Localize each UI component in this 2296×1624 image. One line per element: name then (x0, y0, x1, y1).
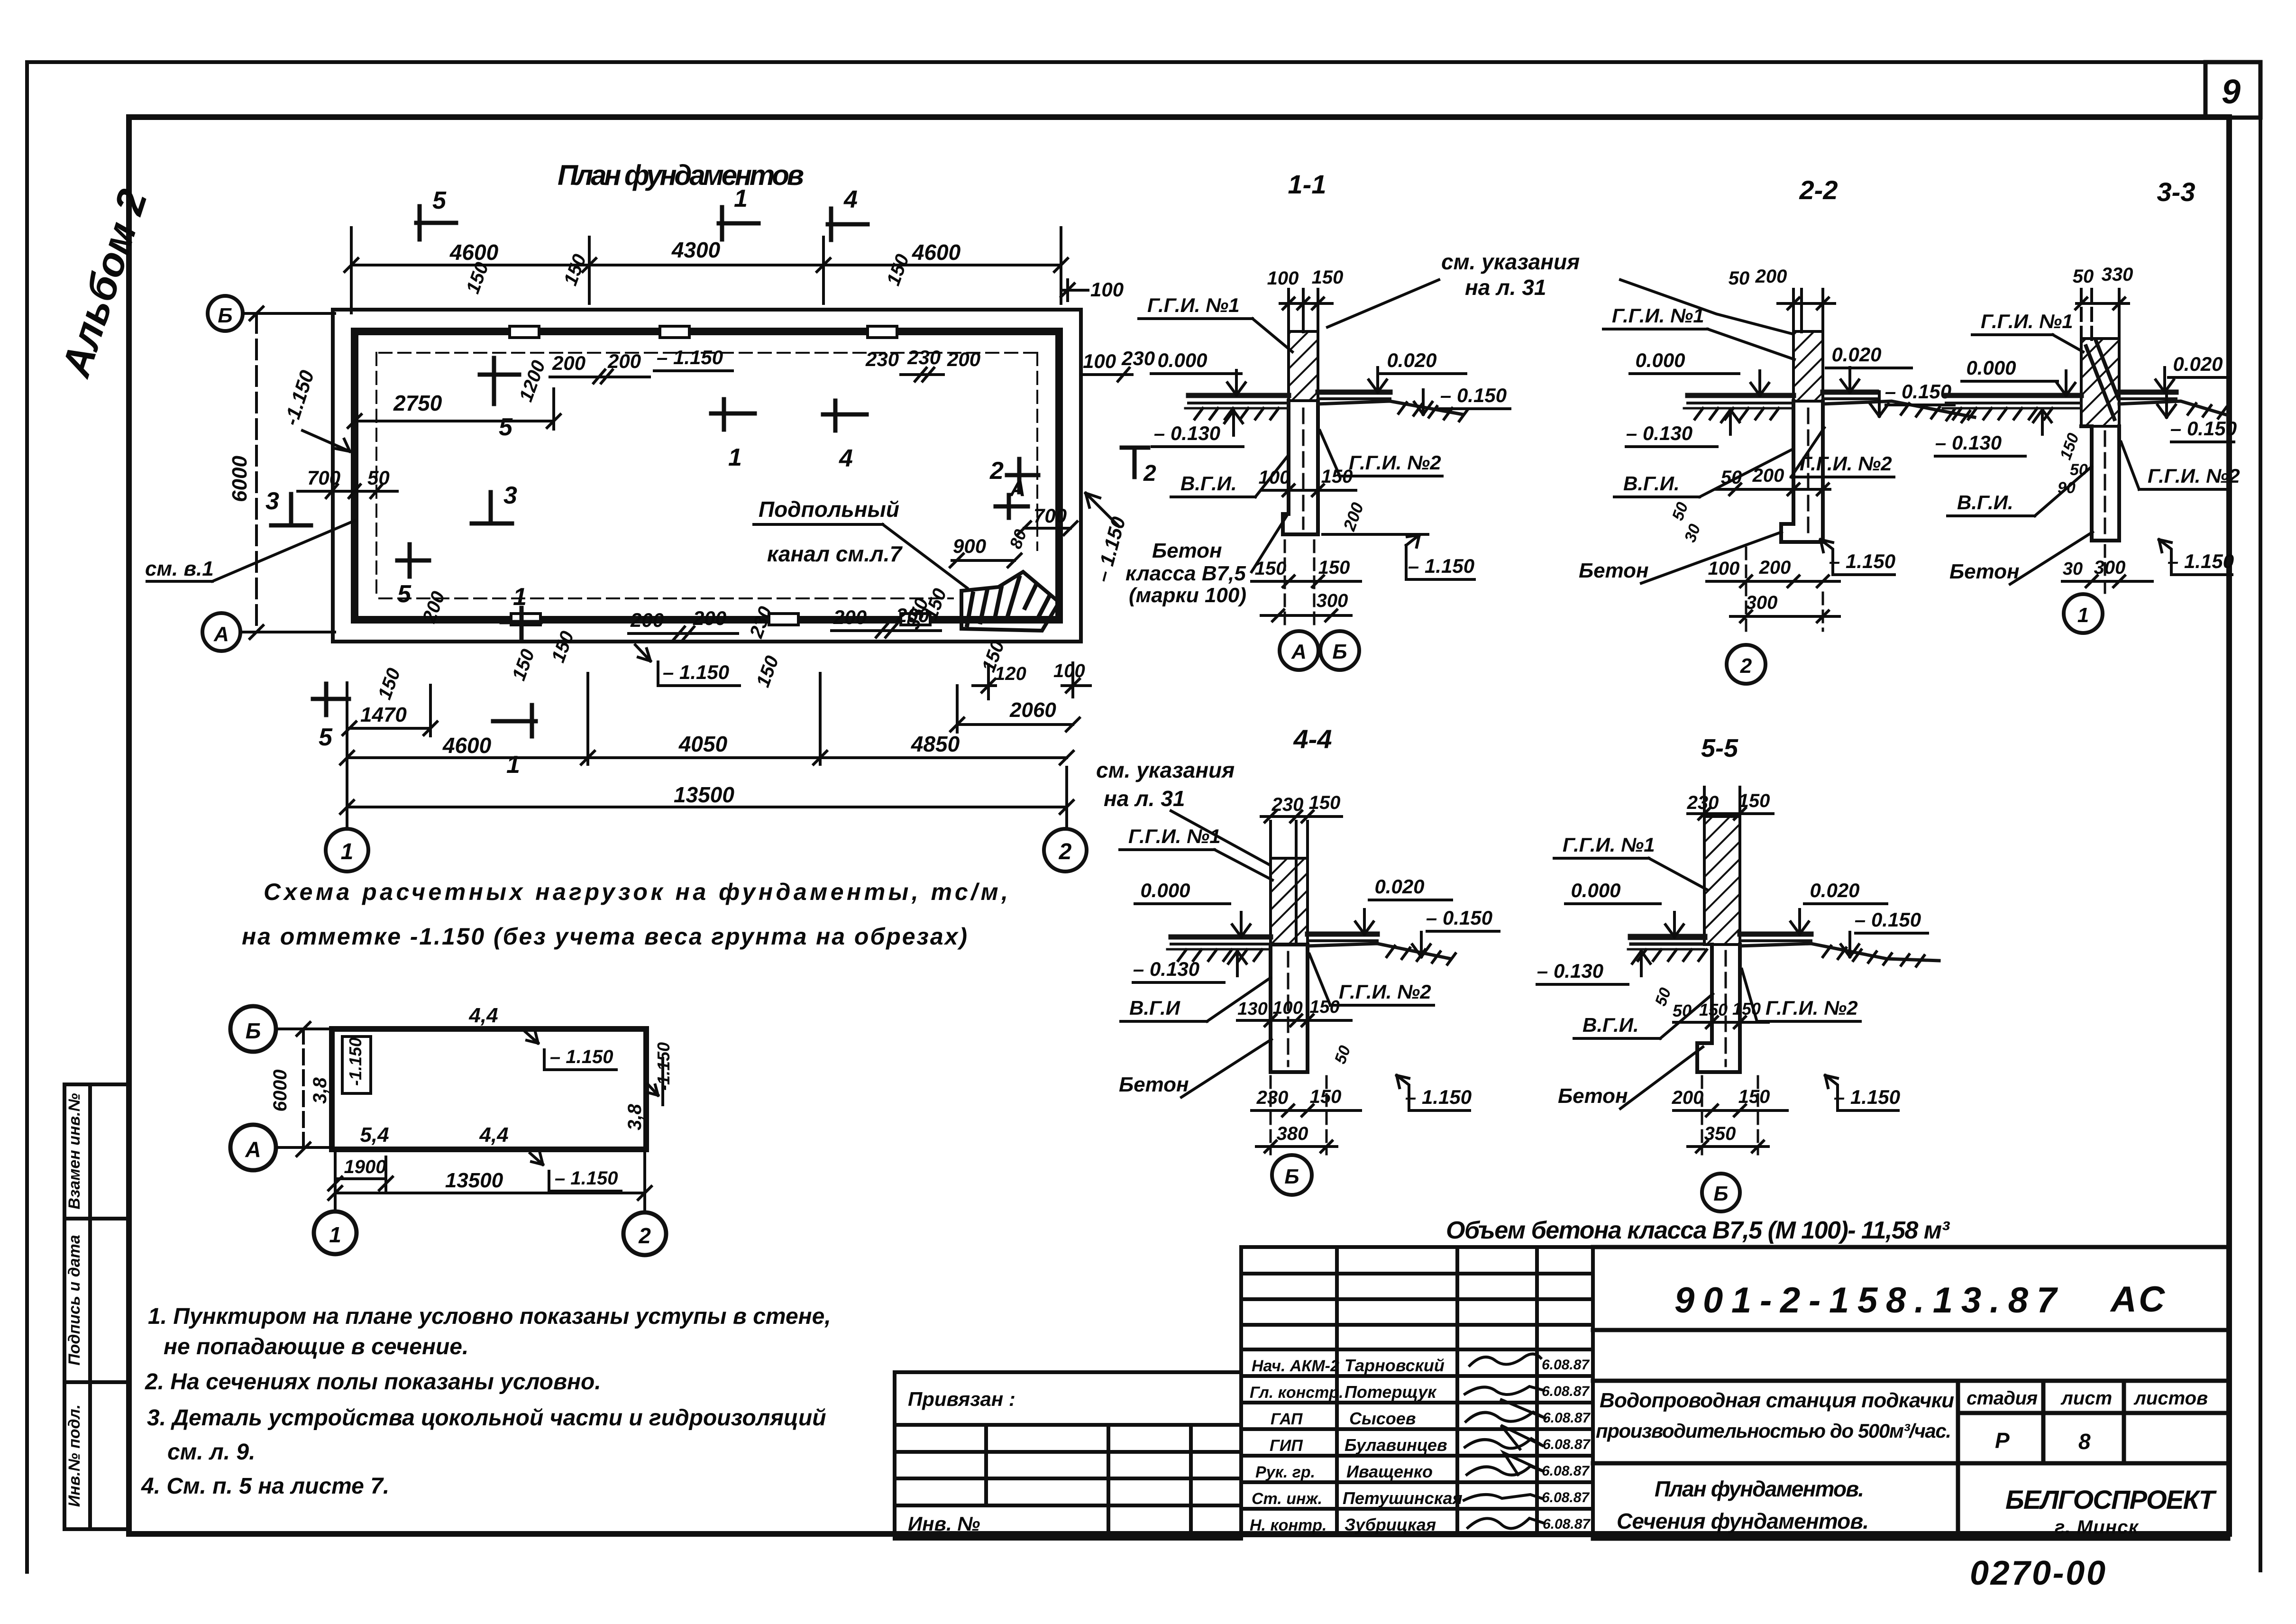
svg-text:1900: 1900 (344, 1156, 386, 1177)
privyazan box (895, 1372, 1241, 1539)
s11 wall hatched (1289, 331, 1318, 401)
svg-text:50: 50 (2070, 461, 2088, 479)
svg-text:– 0.130: – 0.130 (1537, 960, 1603, 982)
svg-text:Рук. гр.: Рук. гр. (1255, 1463, 1315, 1481)
svg-text:А: А (1009, 476, 1025, 501)
svg-text:150: 150 (1312, 267, 1344, 288)
svg-text:901-2-158.13.87: 901-2-158.13.87 (1674, 1280, 2058, 1321)
svg-text:150: 150 (1255, 558, 1287, 579)
svg-text:стадия: стадия (1967, 1388, 2038, 1409)
svg-text:Гл. констр.: Гл. констр. (1250, 1384, 1344, 1402)
s11 floor right and ground slope (1318, 392, 1463, 414)
signatures scribbles (1464, 1354, 1546, 1528)
svg-text:ГАП: ГАП (1271, 1410, 1303, 1428)
s33 wall below floor (2081, 426, 2119, 541)
svg-text:лист: лист (2060, 1388, 2112, 1409)
s55 floor left thick (1628, 937, 1704, 949)
svg-text:2: 2 (1143, 461, 1156, 486)
s11 floor left (1185, 395, 1289, 408)
svg-text:Г.Г.И. №2: Г.Г.И. №2 (1800, 452, 1892, 475)
svg-text:– 0.150: – 0.150 (1426, 907, 1492, 929)
svg-text:50: 50 (2073, 266, 2094, 287)
s33 axis circle 1 (2104, 545, 2106, 593)
svg-text:6.08.87: 6.08.87 (1543, 1516, 1591, 1532)
s11 mark 2 (1122, 448, 1148, 477)
svg-text:В.Г.И.: В.Г.И. (1180, 472, 1237, 495)
s55 wall below floor (1697, 945, 1740, 1072)
svg-text:В.Г.И.: В.Г.И. (1623, 472, 1680, 495)
s44 wall hatched (1271, 858, 1308, 945)
svg-text:Инв.№ подл.: Инв.№ подл. (65, 1404, 83, 1507)
svg-text:Подпольный: Подпольный (759, 497, 899, 522)
svg-text:Н. контр.: Н. контр. (1250, 1516, 1326, 1534)
wall inner dashed ledges (376, 353, 1037, 598)
s11 axis circles A B (1280, 631, 1318, 670)
svg-text:– 1.150: – 1.150 (1405, 1086, 1472, 1108)
section mark 1 top (719, 207, 759, 239)
svg-text:330: 330 (2102, 264, 2133, 285)
right title cells (1593, 1247, 2228, 1539)
svg-text:г. Минск: г. Минск (2055, 1517, 2139, 1538)
box Взамен инв. (64, 1084, 129, 1219)
svg-text:0.000: 0.000 (1571, 879, 1620, 901)
svg-text:Ст. инж.: Ст. инж. (1252, 1490, 1322, 1508)
schema dim 6000 rotated (297, 1022, 310, 1156)
svg-text:Булавинцев: Булавинцев (1345, 1435, 1447, 1455)
s33 floor left (1943, 395, 2081, 408)
schema axis bubble 2 (623, 1212, 666, 1255)
svg-text:1: 1 (734, 185, 748, 212)
svg-text:4: 4 (839, 445, 853, 472)
svg-text:не попадающие в сечение.: не попадающие в сечение. (164, 1334, 468, 1359)
svg-text:Б: Б (1713, 1182, 1728, 1205)
svg-text:6.08.87: 6.08.87 (1542, 1490, 1590, 1505)
svg-text:Г.Г.И. №1: Г.Г.И. №1 (1128, 825, 1221, 847)
section mark 4 top (828, 209, 868, 240)
svg-text:130: 130 (1237, 999, 1267, 1019)
svg-text:6.08.87: 6.08.87 (1542, 1357, 1590, 1373)
svg-text:– 1.150: – 1.150 (663, 661, 729, 683)
svg-text:производительностью до 500м³/ч: производительностью до 500м³/час. (1596, 1420, 1951, 1442)
schema axis bubble A (230, 1125, 276, 1170)
svg-text:4,4: 4,4 (479, 1123, 508, 1147)
svg-text:БЕЛГОСПРОЕКТ: БЕЛГОСПРОЕКТ (2005, 1485, 2217, 1514)
svg-text:Нач. АКМ-2: Нач. АКМ-2 (1252, 1357, 1339, 1375)
svg-text:Объем бетона класса В7,5 (М 10: Объем бетона класса В7,5 (М 100)- 11,58 … (1446, 1217, 1950, 1244)
box Инв № подл (64, 1382, 129, 1529)
svg-text:4,4: 4,4 (468, 1004, 498, 1027)
svg-text:5: 5 (499, 413, 513, 441)
svg-text:2. На сечениях полы показаны: 2. На сечениях полы показаны условно. (145, 1369, 601, 1395)
svg-text:Альбом 2: Альбом 2 (53, 184, 156, 383)
section mark 3 right (472, 492, 512, 523)
svg-text:Иващенко: Иващенко (1346, 1462, 1433, 1481)
svg-text:см. указания: см. указания (1441, 249, 1580, 274)
svg-text:6.08.87: 6.08.87 (1543, 1437, 1591, 1452)
svg-text:2: 2 (638, 1223, 651, 1248)
svg-text:1200: 1200 (515, 358, 549, 404)
section mark 1 bottom (502, 608, 540, 638)
svg-text:90: 90 (2058, 479, 2076, 497)
svg-text:5,4: 5,4 (360, 1123, 389, 1147)
svg-text:0.020: 0.020 (1810, 879, 1859, 901)
svg-text:– 1.150: – 1.150 (1829, 550, 1895, 572)
svg-text:30: 30 (2063, 559, 2083, 579)
svg-text:200: 200 (1339, 500, 1367, 533)
svg-text:Привязан :: Привязан : (908, 1388, 1015, 1410)
svg-text:Бетон: Бетон (1949, 560, 2020, 583)
s33 floor right and slope (2119, 392, 2228, 415)
svg-text:230: 230 (1121, 347, 1155, 369)
svg-text:80: 80 (1006, 527, 1030, 551)
section mark 1 below (493, 705, 536, 736)
top dim tier 4600 4300 4600 (345, 228, 1068, 313)
svg-text:Бетон: Бетон (1558, 1084, 1628, 1108)
svg-text:План фундаментов: План фундаментов (558, 159, 804, 191)
svg-text:4. См. п. 5 на листе 7.: 4. См. п. 5 на листе 7. (141, 1474, 389, 1499)
svg-text:1: 1 (2077, 604, 2089, 627)
svg-text:Б: Б (218, 304, 232, 327)
svg-text:А: А (1291, 640, 1307, 663)
staff roles (1250, 1357, 1344, 1534)
svg-text:1470: 1470 (360, 703, 407, 726)
svg-text:150: 150 (1738, 1086, 1770, 1107)
svg-text:0.000: 0.000 (1635, 349, 1685, 371)
svg-text:– 0.130: – 0.130 (1154, 422, 1220, 444)
section mark 5 left low (397, 544, 429, 577)
svg-text:А: А (213, 623, 229, 646)
svg-text:150: 150 (883, 251, 913, 288)
s55 floor right and slope (1740, 934, 1939, 961)
svg-text:200: 200 (1759, 557, 1791, 578)
svg-text:Потерщук: Потерщук (1345, 1382, 1437, 1402)
svg-text:3: 3 (503, 482, 517, 509)
svg-text:150: 150 (548, 628, 578, 665)
svg-text:3. Деталь устройства цокольно: 3. Деталь устройства цокольной части и г… (147, 1405, 826, 1431)
svg-text:Сечения фундаментов.: Сечения фундаментов. (1617, 1509, 1869, 1533)
svg-text:1: 1 (506, 751, 520, 779)
s22 floor left (1684, 395, 1793, 408)
svg-text:4-4: 4-4 (1293, 724, 1332, 754)
svg-text:0.020: 0.020 (2173, 353, 2223, 375)
svg-text:13500: 13500 (445, 1169, 503, 1192)
svg-text:5: 5 (319, 724, 333, 751)
svg-text:Тарновский: Тарновский (1345, 1356, 1445, 1375)
svg-text:-1.150: -1.150 (346, 1037, 365, 1086)
axis leader lines (240, 313, 335, 632)
svg-text:Г.Г.И. №1: Г.Г.И. №1 (1563, 834, 1655, 856)
svg-text:на л. 31: на л. 31 (1104, 786, 1185, 811)
svg-text:150: 150 (2057, 431, 2083, 462)
svg-text:150: 150 (752, 653, 783, 690)
svg-text:0270-00: 0270-00 (1970, 1554, 2105, 1592)
svg-text:Г.Г.И. №1: Г.Г.И. №1 (1981, 310, 2073, 332)
s22 wall hatched (1793, 331, 1823, 401)
svg-text:6.08.87: 6.08.87 (1542, 1384, 1590, 1399)
svg-text:2: 2 (1740, 654, 1752, 678)
svg-text:8: 8 (2078, 1429, 2091, 1454)
svg-text:1. Пунктиром на плане условно: 1. Пунктиром на плане условно показаны у… (148, 1304, 831, 1329)
svg-text:ГИП: ГИП (1270, 1437, 1303, 1455)
s11 wall below floor (1283, 401, 1318, 534)
svg-text:6000: 6000 (270, 1070, 291, 1112)
svg-text:200: 200 (552, 352, 585, 374)
s22 axis circle 2 (1727, 645, 1765, 684)
svg-text:на отметке -1.150 (без учета в: на отметке -1.150 (без учета веса грунта… (242, 923, 967, 950)
svg-text:(марки 100): (марки 100) (1129, 584, 1246, 607)
svg-text:4600: 4600 (442, 733, 492, 758)
svg-text:– 1.150: – 1.150 (2168, 550, 2234, 572)
svg-text:200: 200 (833, 606, 867, 628)
svg-text:4600: 4600 (912, 240, 961, 265)
svg-text:канал см.л.7: канал см.л.7 (767, 541, 903, 566)
svg-text:230: 230 (1687, 792, 1719, 813)
svg-text:50: 50 (1729, 268, 1750, 289)
svg-text:5: 5 (432, 187, 447, 214)
svg-text:Зубрицкая: Зубрицкая (1345, 1515, 1436, 1534)
s22 floor right and slope (1823, 392, 1975, 417)
svg-text:100: 100 (1090, 278, 1124, 301)
svg-text:200: 200 (1755, 266, 1787, 287)
dim tier 13500 (340, 683, 1073, 829)
svg-text:2-2: 2-2 (1799, 175, 1838, 205)
svg-text:Бетон: Бетон (1119, 1073, 1189, 1096)
svg-text:30: 30 (1681, 522, 1704, 545)
schema axis bubble 1 (314, 1211, 357, 1254)
staff names (1343, 1356, 1463, 1534)
svg-text:3,8: 3,8 (310, 1077, 330, 1103)
svg-text:Схема расчетных нагрузок на фу: Схема расчетных нагрузок на фундаменты, … (264, 879, 1008, 905)
schema axis bubble B (230, 1006, 276, 1052)
svg-text:50: 50 (1669, 500, 1692, 523)
svg-text:150: 150 (508, 646, 539, 683)
svg-text:Бетон: Бетон (1579, 559, 1649, 582)
s11 ground hatch left (1195, 408, 1279, 419)
svg-text:2: 2 (989, 457, 1004, 485)
svg-text:Г.Г.И. №1: Г.Г.И. №1 (1612, 304, 1704, 327)
svg-text:Г.Г.И. №2: Г.Г.И. №2 (2148, 465, 2240, 487)
svg-text:см. указания: см. указания (1096, 758, 1235, 782)
svg-text:3: 3 (265, 487, 279, 515)
svg-text:Инв. №: Инв. № (908, 1513, 980, 1535)
svg-text:3,8: 3,8 (624, 1103, 645, 1130)
svg-text:1: 1 (329, 1222, 341, 1247)
svg-text:380: 380 (1277, 1123, 1308, 1144)
svg-text:120: 120 (995, 663, 1026, 684)
svg-text:Взамен инв.№: Взамен инв.№ (65, 1093, 83, 1209)
svg-text:50: 50 (1331, 1043, 1354, 1066)
svg-text:Сысоев: Сысоев (1349, 1409, 1416, 1428)
svg-text:Водопроводная станция подкачки: Водопроводная станция подкачки (1600, 1389, 1954, 1412)
svg-text:50: 50 (1673, 1001, 1692, 1020)
underfloor channel hatched (961, 572, 1059, 631)
svg-text:100: 100 (1708, 558, 1740, 579)
svg-text:– 1.150: – 1.150 (1408, 555, 1474, 577)
svg-text:13500: 13500 (674, 782, 734, 807)
svg-text:6000: 6000 (228, 456, 251, 502)
svg-text:100: 100 (1267, 268, 1299, 289)
svg-text:Подпись и дата: Подпись и дата (65, 1235, 83, 1366)
svg-text:В.Г.И.: В.Г.И. (1957, 491, 2013, 514)
dim tier 4600 4050 4850 (340, 673, 1073, 764)
svg-text:200: 200 (630, 609, 664, 631)
svg-text:2750: 2750 (393, 391, 442, 415)
svg-text:230: 230 (907, 346, 941, 368)
s22 wall below floor (1781, 401, 1823, 542)
svg-text:– 0.130: – 0.130 (1626, 422, 1692, 444)
interior mark 1 mid (711, 399, 755, 430)
inner frame (129, 117, 2229, 1534)
svg-text:– 0.150: – 0.150 (1855, 908, 1921, 931)
s55 axis circle B (1702, 1174, 1740, 1211)
svg-text:9: 9 (2222, 73, 2241, 111)
svg-text:на л. 31: на л. 31 (1465, 275, 1546, 300)
svg-text:– 1.150: – 1.150 (1091, 514, 1130, 585)
svg-text:230: 230 (865, 348, 899, 370)
svg-text:1: 1 (728, 444, 742, 471)
schema rectangle (332, 1029, 646, 1149)
grid bubble 1 bottom (326, 829, 368, 872)
svg-text:– 0.130: – 0.130 (1935, 431, 2002, 454)
svg-text:Бетон: Бетон (1152, 539, 1222, 562)
svg-text:150: 150 (374, 665, 404, 702)
section mark 2 right (1007, 459, 1038, 492)
svg-text:0.000: 0.000 (1966, 357, 2016, 379)
svg-text:4: 4 (843, 186, 858, 213)
svg-text:– 0.150: – 0.150 (2170, 417, 2237, 440)
svg-text:200: 200 (947, 348, 980, 370)
svg-text:– 1.150: – 1.150 (657, 346, 723, 368)
staff table grid (1241, 1247, 1593, 1535)
svg-text:1-1: 1-1 (1288, 169, 1326, 199)
svg-text:4850: 4850 (911, 732, 960, 756)
svg-text:5-5: 5-5 (1701, 734, 1738, 762)
svg-text:0.020: 0.020 (1374, 875, 1424, 898)
svg-text:5: 5 (397, 580, 412, 608)
svg-text:150: 150 (1321, 466, 1353, 487)
svg-text:Г.Г.И. №2: Г.Г.И. №2 (1339, 981, 1431, 1003)
svg-text:6.08.87: 6.08.87 (1543, 1410, 1591, 1426)
svg-text:6.08.87: 6.08.87 (1542, 1463, 1590, 1479)
svg-text:3-3: 3-3 (2157, 177, 2195, 207)
svg-text:класса В7,5: класса В7,5 (1125, 562, 1246, 585)
svg-text:см. л. 9.: см. л. 9. (167, 1440, 255, 1465)
grid bubble 2 bottom (1044, 829, 1087, 872)
svg-text:100: 100 (1259, 467, 1290, 488)
svg-text:0.020: 0.020 (1831, 343, 1881, 366)
svg-text:1: 1 (341, 839, 354, 864)
dim 6000 vertical (250, 307, 263, 639)
svg-text:150: 150 (1699, 1000, 1728, 1019)
interior mark 5 with 1200 (480, 358, 519, 404)
svg-text:300: 300 (1317, 590, 1348, 611)
svg-text:150: 150 (560, 251, 590, 288)
svg-text:Р: Р (1995, 1428, 2010, 1453)
svg-text:150: 150 (1738, 790, 1770, 811)
svg-text:– 1.150: – 1.150 (555, 1168, 618, 1189)
svg-text:Петушинская: Петушинская (1343, 1488, 1463, 1508)
box Подпись и дата (64, 1219, 129, 1382)
section mark 5 below plan (313, 684, 349, 715)
wall step notches (510, 326, 930, 625)
svg-text:– 0.150: – 0.150 (1885, 380, 1951, 403)
svg-text:– 1.150: – 1.150 (1834, 1086, 1900, 1108)
plan outer contour (333, 310, 1081, 642)
svg-text:В.Г.И.: В.Г.И. (1583, 1014, 1639, 1036)
schema load -1.150 top-left box (342, 1037, 371, 1093)
svg-text:листов: листов (2133, 1388, 2208, 1409)
s44 floor right and slope (1308, 934, 1451, 959)
svg-text:-1.150: -1.150 (280, 367, 319, 428)
svg-text:1: 1 (513, 583, 527, 611)
svg-text:– 0.130: – 0.130 (1133, 958, 1199, 980)
svg-text:200: 200 (1672, 1087, 1704, 1108)
svg-text:– 1.150: – 1.150 (550, 1046, 613, 1067)
svg-text:900: 900 (953, 535, 986, 557)
svg-text:Г.Г.И. №2: Г.Г.И. №2 (1349, 451, 1441, 474)
svg-text:700: 700 (1034, 505, 1067, 527)
svg-text:230: 230 (1256, 1087, 1289, 1108)
svg-text:Г.Г.И. №1: Г.Г.И. №1 (1147, 294, 1240, 316)
left margin stamp strip (64, 1084, 129, 1529)
svg-text:2: 2 (1059, 839, 1072, 864)
s55 wall hatched (1704, 817, 1740, 945)
s33 wall hatched (2081, 339, 2119, 426)
svg-text:А: А (245, 1137, 261, 1162)
axis bubble B (208, 296, 243, 331)
svg-text:4300: 4300 (671, 238, 721, 262)
staff dates (1542, 1357, 1591, 1532)
svg-text:230: 230 (746, 604, 777, 641)
svg-text:2060: 2060 (1009, 698, 1056, 722)
svg-text:Б: Б (246, 1018, 261, 1043)
svg-text:– 0.150: – 0.150 (1440, 384, 1507, 406)
interior mark 4 mid (823, 401, 867, 431)
svg-text:План фундаментов.: План фундаментов. (1655, 1477, 1864, 1501)
svg-text:50: 50 (367, 467, 390, 489)
svg-text:0.020: 0.020 (1387, 349, 1436, 371)
section mark 5 top (416, 206, 456, 239)
svg-text:100: 100 (1083, 350, 1116, 372)
svg-text:50: 50 (1652, 985, 1675, 1009)
svg-text:см. в.1: см. в.1 (145, 557, 214, 580)
plan wall thick contour (355, 331, 1059, 620)
s44 axis circle B (1272, 1155, 1312, 1195)
svg-text:200: 200 (1752, 465, 1784, 486)
axis bubble A (202, 613, 240, 651)
svg-text:200: 200 (693, 607, 726, 629)
svg-text:4050: 4050 (678, 732, 728, 756)
section mark A right (996, 495, 1028, 518)
svg-text:Б: Б (1332, 640, 1347, 663)
svg-text:0.000: 0.000 (1140, 879, 1190, 901)
svg-text:0.000: 0.000 (1157, 349, 1207, 371)
svg-text:Б: Б (1284, 1165, 1299, 1188)
s44 wall below floor (1271, 945, 1308, 1072)
svg-text:Г.Г.И. №2: Г.Г.И. №2 (1765, 997, 1858, 1019)
s44 floor left (1167, 937, 1271, 949)
sheet number box 9 (2205, 62, 2260, 118)
svg-text:В.Г.И: В.Г.И (1129, 997, 1180, 1019)
svg-text:АС: АС (2110, 1279, 2168, 1320)
section mark 3 left (271, 494, 311, 525)
